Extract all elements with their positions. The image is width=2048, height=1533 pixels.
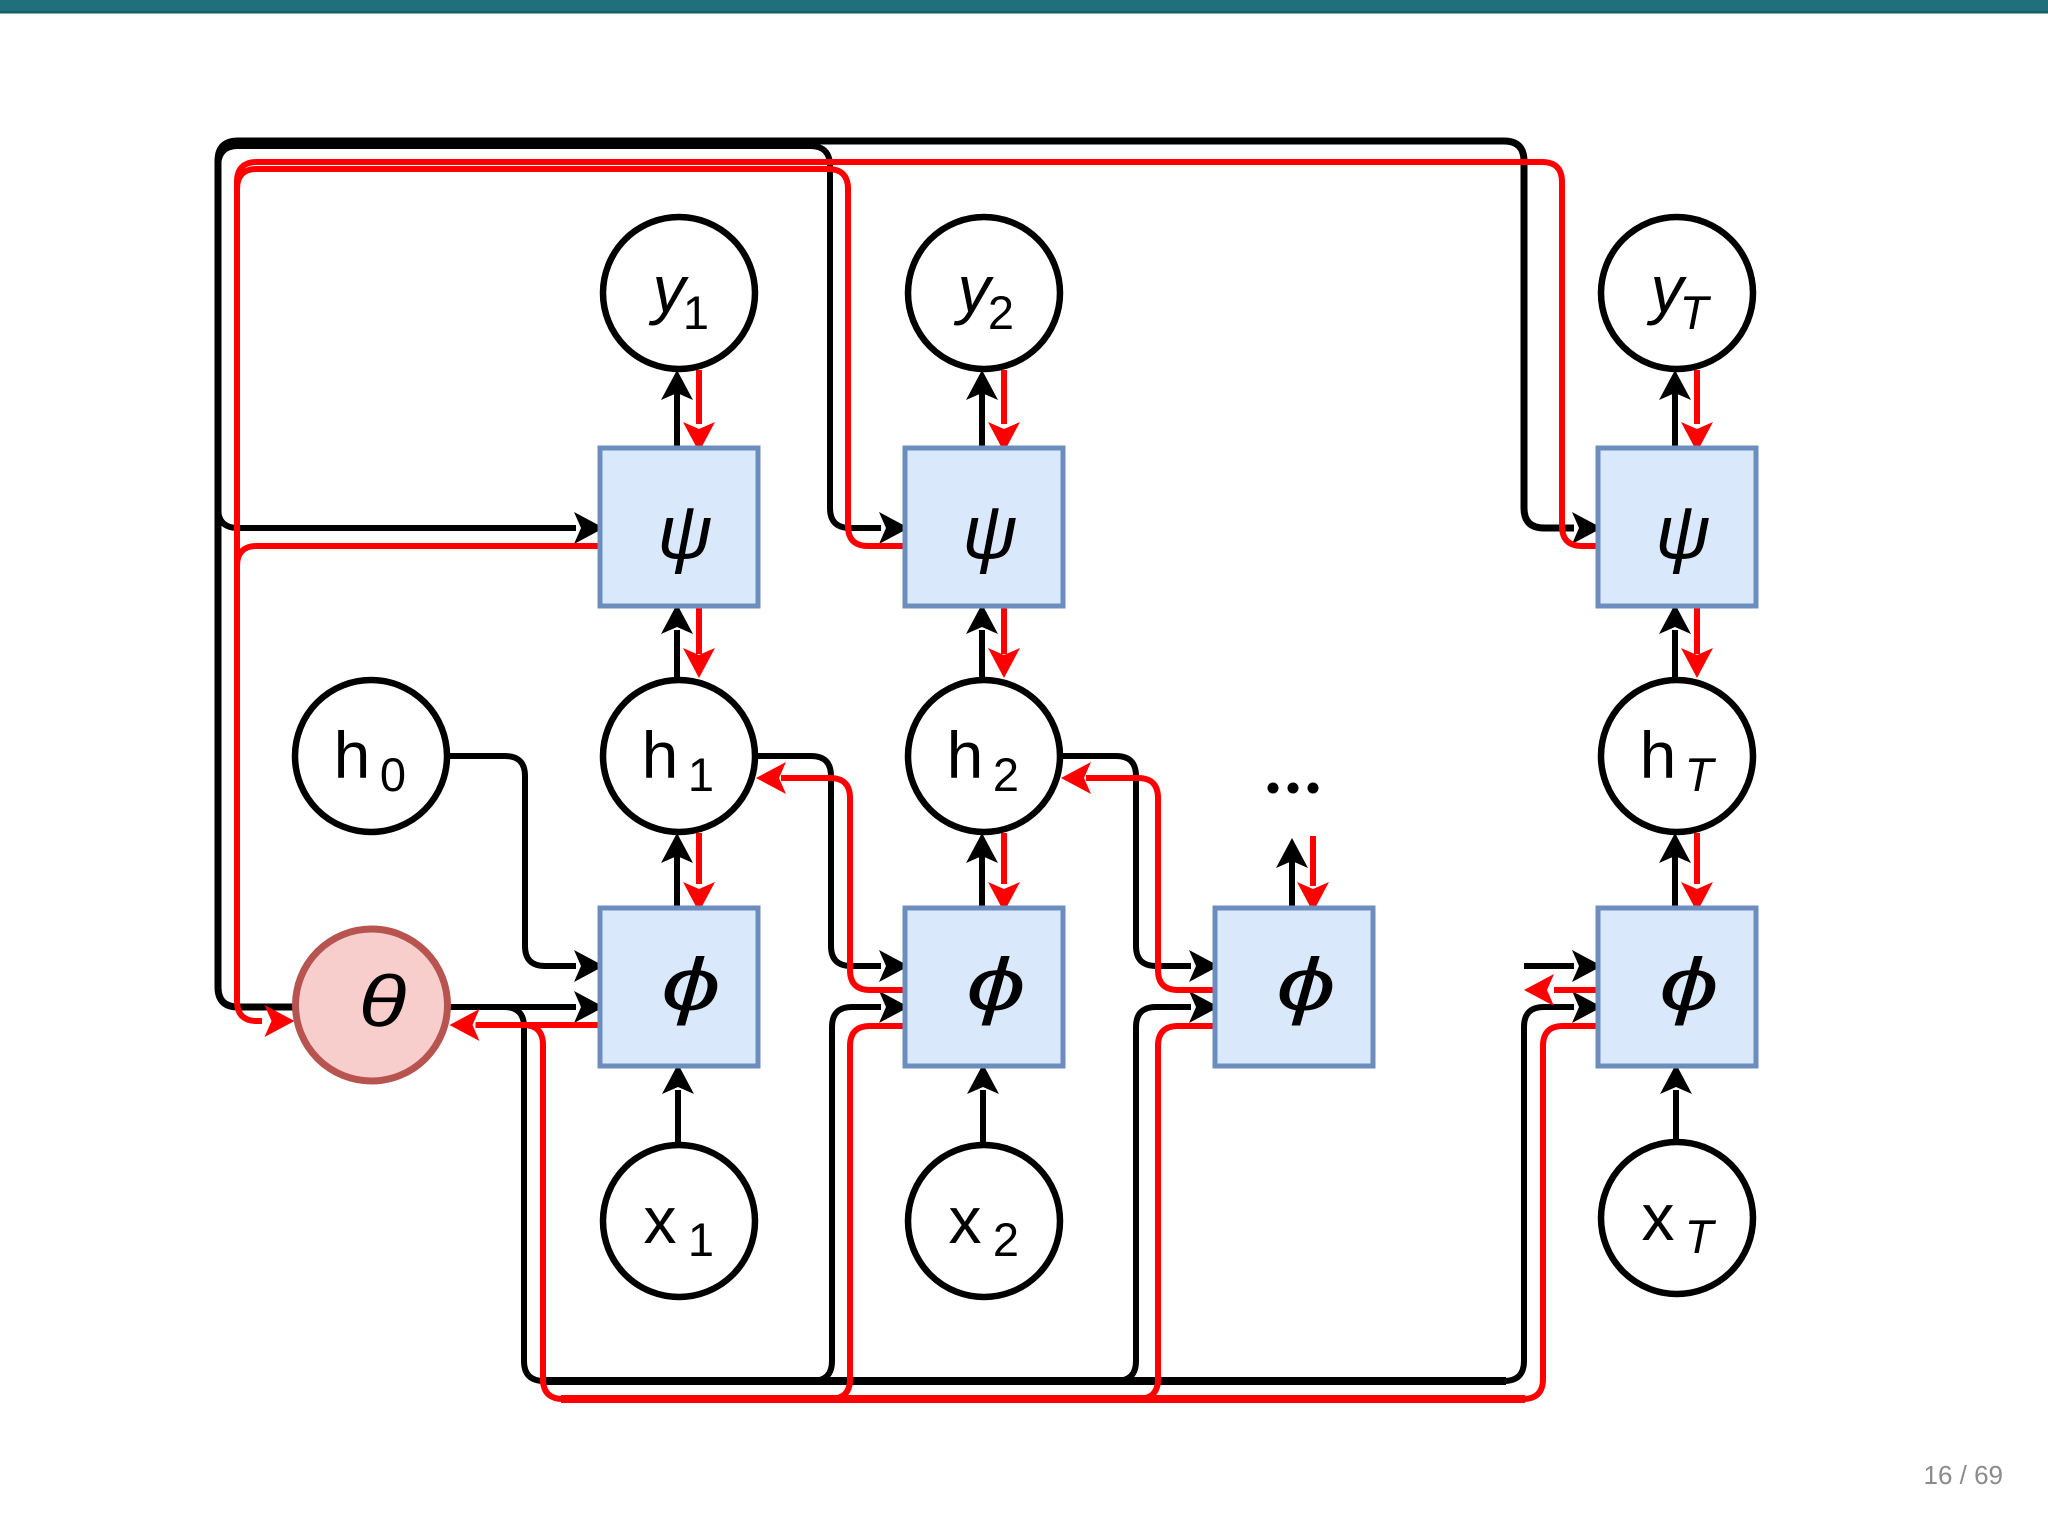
wire phi_1 gradient to theta (red) [476, 1022, 601, 1028]
wire psi_T gradient back to theta (red) [237, 162, 1598, 1021]
svg-text:16 / 69: 16 / 69 [1923, 1460, 2003, 1490]
svg-text:1: 1 [688, 748, 714, 801]
svg-text:T: T [1685, 1210, 1717, 1263]
wire h down to phi (red) [1001, 833, 1007, 884]
arrowhead h into phi [1189, 950, 1219, 982]
riser from bus into phi theta port x=984 (black) [812, 1007, 881, 1381]
wire h up to psi (black) [1672, 630, 1678, 677]
svg-text:h: h [334, 718, 371, 792]
wire h down to phi (red) [696, 833, 702, 884]
svg-text:ϕ: ϕ [1659, 943, 1719, 1026]
op psi_T [1598, 448, 1756, 606]
svg-text:ψ: ψ [962, 490, 1017, 575]
wire phi_T gradient stub (red) [1554, 987, 1598, 993]
arrowhead into phi bottom [1660, 1064, 1692, 1094]
red arrowhead into psi top [683, 422, 715, 452]
wire psi down to h (red) [1694, 608, 1700, 654]
svg-text:ψ: ψ [1655, 490, 1710, 575]
wire h x=679 to next phi (black) [758, 756, 881, 966]
node y2 [908, 217, 1060, 369]
arrowhead into phi bottom [967, 1064, 999, 1094]
svg-text:h: h [1640, 718, 1677, 792]
arrowhead h into phi [879, 950, 909, 982]
wire phi up to h (black) [979, 856, 985, 908]
ellipsis dot 2 [1288, 783, 1299, 794]
wire theta loop to psi_T (black forward) [218, 141, 1574, 1007]
op phi_T [1598, 908, 1756, 1066]
arrowhead into y bottom [966, 370, 998, 400]
red arrowhead into h top [683, 648, 715, 678]
node h0 [295, 680, 447, 832]
arrowhead into phi theta port [1189, 991, 1219, 1023]
header bar [0, 0, 2048, 11]
arrowhead into psi_1 left [574, 512, 604, 544]
arrowhead into h bottom [1659, 833, 1691, 863]
svg-text:T: T [1685, 748, 1717, 801]
wire h_(T-1) stub into phi_T (black) [1524, 963, 1574, 969]
node xT [1601, 1142, 1753, 1294]
op phi_1 [600, 908, 758, 1066]
svg-text:1: 1 [688, 1213, 714, 1266]
riser from bus into phi theta port x=1294 (black) [1116, 1007, 1191, 1381]
svg-text:x: x [949, 1183, 982, 1257]
wire h up to psi (black) [674, 630, 680, 677]
arrowhead into y bottom [1659, 370, 1691, 400]
arrowhead into psi bottom [966, 604, 998, 634]
wire phi_3 up toward dots (black) [1289, 860, 1295, 908]
svg-text:x: x [1642, 1180, 1675, 1254]
wire phi up to h (black) [674, 856, 680, 908]
op psi_1 [600, 448, 758, 606]
wire gradient branch down to bottom bus (red) [523, 1025, 563, 1399]
wire theta to phi_1 (black) [449, 1004, 577, 1010]
wire phi gradient down to bus x=1158 (red) [1138, 1026, 1215, 1399]
ellipsis dot 1 [1268, 783, 1279, 794]
svg-text:2: 2 [993, 748, 1019, 801]
red arrowhead into h right [756, 762, 786, 794]
ellipsis dot 3 [1308, 783, 1319, 794]
red arrowhead into phi top [988, 882, 1020, 912]
red arrowhead into theta right [450, 1009, 480, 1041]
wire dots down to phi_3 (red) [1310, 836, 1316, 886]
node x2 [908, 1145, 1060, 1297]
svg-text:ϕ: ϕ [661, 943, 721, 1026]
arrowhead into h bottom [661, 833, 693, 863]
arrowhead into phi_1 theta port [574, 991, 604, 1023]
bottom distribution bus (black) [542, 1377, 1506, 1385]
node x1 [603, 1145, 755, 1297]
wire y down to psi (red) [1694, 370, 1700, 424]
red arrowhead into h top [1681, 648, 1713, 678]
wire phi gradient back to h x=679 (red) [781, 778, 905, 990]
wire theta branch down to bottom bus (black) [504, 1007, 544, 1381]
node theta [296, 929, 448, 1081]
arrowhead into phi bottom [662, 1064, 694, 1094]
wire x up to phi (black) [675, 1090, 681, 1142]
svg-text:T: T [1680, 286, 1712, 339]
wire phi up to h (black) [1672, 856, 1678, 908]
wire phi gradient back to h x=984 (red) [1086, 778, 1215, 990]
wire h up to psi (black) [979, 630, 985, 677]
arrowhead into psi bottom [661, 604, 693, 634]
wire phi gradient down to bus x=1543 (red) [1523, 1026, 1598, 1399]
svg-text:θ: θ [359, 961, 407, 1042]
arrowhead into y bottom [661, 370, 693, 400]
node h2 [908, 680, 1060, 832]
wire y down to psi (red) [696, 370, 702, 424]
arrowhead into phi theta port [1572, 991, 1602, 1023]
wire phi gradient down to bus x=850 (red) [830, 1026, 905, 1399]
red arrowhead into theta left [265, 1005, 295, 1037]
red arrowhead stub left [1524, 974, 1554, 1006]
wire h x=984 to next phi (black) [1063, 756, 1191, 966]
wire x up to phi (black) [980, 1090, 986, 1142]
red arrowhead into phi top [683, 882, 715, 912]
bottom gradient bus (red) [561, 1395, 1525, 1403]
wire theta branch to psi_1 (black) [218, 508, 576, 528]
arrowhead into phi theta port [879, 991, 909, 1023]
svg-text:h: h [947, 718, 984, 792]
red arrowhead into psi top [1681, 422, 1713, 452]
arrowhead stub into phi_T [1572, 950, 1602, 982]
wire psi up to y (black) [674, 393, 680, 448]
arrowhead into psi_2 left [879, 512, 909, 544]
wire psi_2 gradient to theta bus (red) [237, 169, 905, 546]
svg-text:2: 2 [988, 286, 1014, 339]
wire psi down to h (red) [696, 608, 702, 654]
red arrowhead into h right [1061, 762, 1091, 794]
wire psi_1 gradient to theta bus (red) [237, 546, 600, 584]
red arrowhead into phi top [1681, 882, 1713, 912]
wire h0 to phi_1 (black) [450, 756, 576, 966]
svg-text:2: 2 [993, 1213, 1019, 1266]
op phi_3 [1215, 908, 1373, 1066]
svg-text:0: 0 [380, 748, 406, 801]
riser from bus into phi theta port x=1677 (black) [1504, 1007, 1574, 1381]
wire psi up to y (black) [1672, 393, 1678, 448]
wire y down to psi (red) [1001, 370, 1007, 424]
wire psi up to y (black) [979, 393, 985, 448]
op phi_2 [905, 908, 1063, 1066]
node yT [1601, 217, 1753, 369]
node hT [1601, 680, 1753, 832]
wire psi down to h (red) [1001, 608, 1007, 654]
svg-text:h: h [642, 718, 679, 792]
red arrowhead into phi_3 top [1297, 882, 1329, 912]
wire x up to phi (black) [1673, 1090, 1679, 1139]
arrowhead at dots [1276, 838, 1308, 868]
svg-text:x: x [644, 1183, 677, 1257]
red arrowhead into psi top [988, 422, 1020, 452]
wire theta branch to psi_2 (black) [218, 146, 881, 528]
svg-text:ϕ: ϕ [966, 943, 1026, 1026]
arrowhead into psi bottom [1659, 604, 1691, 634]
red arrowhead into h top [988, 648, 1020, 678]
arrowhead into psi_T left [1572, 512, 1602, 544]
arrowhead into h bottom [966, 833, 998, 863]
svg-text:ψ: ψ [657, 490, 712, 575]
op psi_2 [905, 448, 1063, 606]
node h1 [603, 680, 755, 832]
svg-text:1: 1 [683, 286, 709, 339]
svg-text:ϕ: ϕ [1276, 943, 1336, 1026]
arrowhead h0 into phi_1 [574, 950, 604, 982]
node y1 [603, 217, 755, 369]
wire h down to phi (red) [1694, 833, 1700, 884]
